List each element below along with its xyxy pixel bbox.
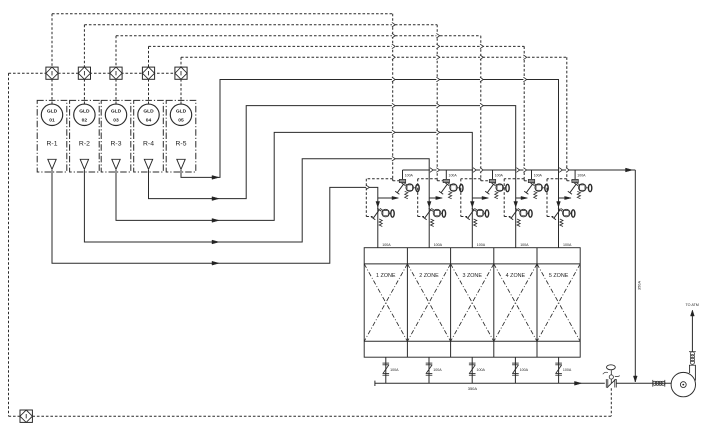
svg-text:GLD: GLD bbox=[79, 109, 90, 115]
svg-text:3 ZONE: 3 ZONE bbox=[462, 273, 482, 279]
svg-text:100A: 100A bbox=[495, 173, 504, 177]
svg-text:R-4: R-4 bbox=[143, 140, 154, 147]
svg-text:R-2: R-2 bbox=[79, 140, 90, 147]
svg-text:100A: 100A bbox=[433, 368, 442, 372]
svg-text:1 ZONE: 1 ZONE bbox=[376, 273, 396, 279]
svg-text:5 ZONE: 5 ZONE bbox=[549, 273, 569, 279]
svg-text:R-3: R-3 bbox=[111, 140, 122, 147]
svg-text:100A: 100A bbox=[382, 243, 391, 247]
svg-text:100A: 100A bbox=[534, 173, 543, 177]
svg-text:02: 02 bbox=[82, 117, 88, 123]
svg-text:100A: 100A bbox=[477, 368, 486, 372]
svg-text:100A: 100A bbox=[520, 243, 529, 247]
svg-text:100A: 100A bbox=[434, 243, 443, 247]
svg-text:TO ATM: TO ATM bbox=[686, 303, 699, 307]
svg-text:100A: 100A bbox=[405, 173, 414, 177]
svg-text:GLD: GLD bbox=[176, 109, 187, 115]
svg-text:350A: 350A bbox=[468, 386, 478, 391]
svg-text:GLD: GLD bbox=[143, 109, 154, 115]
svg-text:05: 05 bbox=[178, 117, 184, 123]
svg-text:100A: 100A bbox=[577, 173, 586, 177]
svg-text:GLD: GLD bbox=[47, 109, 58, 115]
svg-text:100A: 100A bbox=[520, 368, 529, 372]
svg-text:100A: 100A bbox=[390, 368, 399, 372]
svg-text:01: 01 bbox=[49, 117, 55, 123]
svg-text:4 ZONE: 4 ZONE bbox=[506, 273, 526, 279]
svg-text:2 ZONE: 2 ZONE bbox=[419, 273, 439, 279]
svg-text:350A: 350A bbox=[637, 281, 642, 290]
svg-text:100A: 100A bbox=[449, 173, 458, 177]
svg-text:GLD: GLD bbox=[111, 109, 122, 115]
svg-text:100A: 100A bbox=[563, 368, 572, 372]
svg-text:03: 03 bbox=[113, 117, 119, 123]
svg-text:R-1: R-1 bbox=[47, 140, 58, 147]
svg-text:R-5: R-5 bbox=[176, 140, 187, 147]
svg-text:100A: 100A bbox=[477, 243, 486, 247]
svg-text:04: 04 bbox=[146, 117, 152, 123]
svg-text:100A: 100A bbox=[563, 243, 572, 247]
